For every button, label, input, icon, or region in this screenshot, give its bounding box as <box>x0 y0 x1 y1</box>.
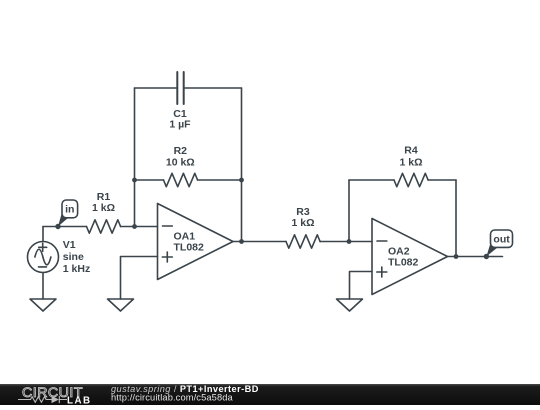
wire OA2 output row <box>448 256 503 258</box>
voltage source V1 <box>28 242 59 273</box>
op-amp OA1 <box>158 204 234 280</box>
wire OA1 output row to OA2 minus <box>233 241 372 243</box>
flag in <box>58 200 78 227</box>
node R2 loop left at input row <box>132 224 137 229</box>
svg-text:1 µF: 1 µF <box>169 119 191 131</box>
label R4 value <box>399 145 422 169</box>
label R2 value <box>166 145 195 169</box>
wire V1 bottom to ground <box>42 273 44 300</box>
svg-text:TL082: TL082 <box>174 241 205 253</box>
logo CIRCUIT text <box>22 385 83 401</box>
footer url line <box>111 393 234 403</box>
node OA1 output <box>239 239 244 244</box>
svg-text:out: out <box>493 234 510 246</box>
svg-text:1 kΩ: 1 kΩ <box>399 157 422 169</box>
logo LAB text <box>67 396 92 407</box>
svg-text:1 kHz: 1 kHz <box>63 263 90 275</box>
label OA1 <box>174 230 205 253</box>
label C1 value <box>169 108 191 131</box>
node in-flag attach <box>55 224 60 229</box>
svg-text:http://circuitlab.com/c5a58da: http://circuitlab.com/c5a58da <box>111 393 234 403</box>
svg-text:in: in <box>65 204 74 216</box>
node R2 row left <box>132 178 137 183</box>
resistor R2 <box>164 173 198 186</box>
node OA2 output <box>454 254 459 259</box>
wire OA2 plus input to ground <box>350 272 373 300</box>
node OA2 minus input <box>347 239 352 244</box>
wire loop1 top row <box>135 87 242 89</box>
resistor R3 <box>286 235 320 248</box>
node R2 row right <box>239 178 244 183</box>
svg-text:10 kΩ: 10 kΩ <box>166 157 195 169</box>
svg-text:R4: R4 <box>404 145 418 157</box>
svg-text:1 kΩ: 1 kΩ <box>92 202 115 214</box>
resistor R1 <box>87 220 121 233</box>
capacitor C1 <box>177 72 183 104</box>
flag out <box>486 230 512 257</box>
wire input row from V1 top to OA1 minus <box>43 226 158 228</box>
wire loop2 top row leads <box>349 179 456 181</box>
node out-flag attach <box>484 254 489 259</box>
wire loop1 left vertical <box>134 88 136 227</box>
wire loop2 right vertical <box>455 180 457 257</box>
label R3 value <box>291 206 314 229</box>
wire V1 top vertical <box>42 227 44 242</box>
label R1 value <box>92 191 115 214</box>
label V1 value <box>63 239 90 275</box>
footer author/title line <box>111 384 259 394</box>
op-amp OA2 <box>372 219 448 295</box>
svg-text:LAB: LAB <box>67 396 92 405</box>
resistor R4 <box>394 173 428 186</box>
svg-text:1 kΩ: 1 kΩ <box>291 217 314 229</box>
wire loop1 right vertical <box>241 88 243 242</box>
svg-text:TL082: TL082 <box>388 256 419 268</box>
footer bar <box>0 384 540 405</box>
svg-text:sine: sine <box>63 251 84 263</box>
ground below V1 <box>30 299 56 311</box>
svg-text:R2: R2 <box>174 145 188 157</box>
label OA2 <box>388 245 419 268</box>
node junction dots <box>55 178 489 260</box>
ground below OA1 plus <box>108 299 134 311</box>
svg-text:V1: V1 <box>63 239 76 251</box>
wire OA1 plus input to ground <box>121 257 158 300</box>
ground below OA2 plus <box>337 299 363 311</box>
logo resistor-diode symbol <box>18 396 67 403</box>
wire R2 row leads <box>135 179 242 181</box>
wire loop2 left vertical <box>348 180 350 242</box>
